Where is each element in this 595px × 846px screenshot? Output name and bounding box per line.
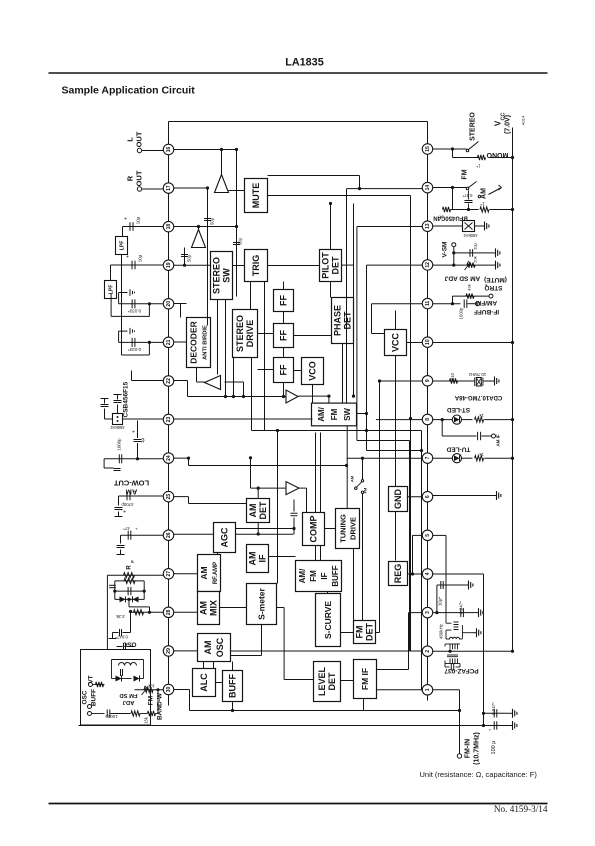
svg-text:0.033*: 0.033* — [128, 308, 141, 313]
svg-text:9: 9 — [425, 379, 431, 382]
svg-text:AM/: AM/ — [317, 406, 326, 421]
svg-text:STEREO: STEREO — [235, 315, 245, 352]
svg-text:AM: AM — [199, 566, 209, 579]
svg-text:SW: SW — [222, 268, 232, 283]
svg-text:OUT: OUT — [135, 170, 144, 186]
svg-text:AM: AM — [199, 601, 209, 615]
svg-text:STEREO: STEREO — [212, 257, 222, 294]
svg-text:CDA10.7MG-48A: CDA10.7MG-48A — [454, 394, 502, 400]
svg-text:Sample Application Circuit: Sample Application Circuit — [62, 85, 196, 97]
svg-text:OSC: OSC — [82, 690, 89, 704]
svg-text:S-CURVE: S-CURVE — [323, 601, 333, 639]
svg-text:(7.0V): (7.0V) — [505, 115, 512, 134]
svg-text:1000p: 1000p — [105, 714, 118, 719]
svg-text:910: 910 — [450, 372, 455, 380]
svg-text:OSC: OSC — [215, 637, 225, 657]
svg-text:24: 24 — [166, 455, 172, 461]
svg-text:+: + — [489, 728, 492, 733]
svg-text:+: + — [135, 527, 138, 532]
svg-text:10μ: 10μ — [473, 242, 478, 249]
svg-text:AM: AM — [248, 504, 258, 518]
svg-text:GND: GND — [393, 489, 403, 510]
svg-text:FM SD: FM SD — [119, 692, 137, 698]
svg-text:FM-IN: FM-IN — [465, 739, 472, 758]
svg-text:AM SD ADJ: AM SD ADJ — [444, 275, 480, 282]
svg-text:PCFAZ-037: PCFAZ-037 — [444, 667, 479, 674]
svg-text:DET: DET — [331, 256, 341, 275]
svg-text:VCO: VCO — [308, 361, 318, 381]
svg-text:LPF: LPF — [120, 241, 126, 251]
svg-text:V-SM: V-SM — [442, 242, 449, 258]
svg-text:1μ: 1μ — [140, 438, 145, 443]
svg-text:10.7MHz: 10.7MHz — [469, 372, 487, 377]
svg-text:15k: 15k — [144, 716, 149, 724]
svg-text:TUNING: TUNING — [339, 514, 348, 543]
svg-text:AM: AM — [203, 641, 213, 655]
svg-text:BFU450C4N: BFU450C4N — [433, 215, 467, 221]
svg-text:MUTE: MUTE — [251, 183, 261, 209]
svg-text:AM: AM — [350, 475, 355, 482]
svg-text:1: 1 — [425, 688, 431, 691]
svg-text:22: 22 — [166, 378, 172, 384]
svg-text:19: 19 — [166, 262, 172, 268]
svg-text:15: 15 — [425, 146, 431, 152]
svg-text:14: 14 — [425, 185, 431, 191]
svg-text:450kHz: 450kHz — [463, 233, 477, 238]
svg-text:0.047*: 0.047* — [115, 635, 128, 640]
svg-text:ALC: ALC — [199, 673, 209, 692]
svg-text:No. 4159-3/14: No. 4159-3/14 — [494, 804, 548, 814]
svg-text:1*: 1* — [480, 202, 484, 207]
svg-text:450kHz: 450kHz — [439, 624, 444, 639]
svg-text:PILOT: PILOT — [321, 252, 331, 279]
svg-text:27: 27 — [166, 571, 172, 577]
svg-text:DET: DET — [258, 501, 268, 520]
svg-text:0.047*: 0.047* — [491, 702, 496, 715]
svg-text:8: 8 — [425, 418, 431, 421]
svg-text:DRIVE: DRIVE — [245, 320, 255, 348]
svg-text:LA1835: LA1835 — [285, 57, 323, 69]
svg-text:50μ: 50μ — [187, 254, 192, 262]
svg-text:DET: DET — [327, 672, 337, 691]
svg-text:BUFF: BUFF — [91, 689, 98, 706]
svg-text:IF: IF — [258, 554, 268, 563]
svg-text:DET: DET — [365, 622, 375, 641]
svg-text:17: 17 — [166, 185, 172, 191]
svg-text:3: 3 — [425, 611, 431, 614]
svg-text:3.3k: 3.3k — [115, 614, 124, 619]
svg-text:LPF: LPF — [109, 285, 115, 295]
svg-text:29: 29 — [166, 648, 172, 654]
svg-text:0.033*: 0.033* — [128, 347, 141, 352]
svg-text:ANTI BIRDIE: ANTI BIRDIE — [203, 325, 209, 360]
svg-text:10μ: 10μ — [138, 254, 143, 262]
svg-text:BUFF: BUFF — [228, 674, 238, 698]
svg-text:26: 26 — [166, 532, 172, 538]
svg-text:MONO: MONO — [486, 151, 508, 158]
svg-text:SW: SW — [343, 408, 352, 421]
svg-text:RF.AMP: RF.AMP — [213, 562, 219, 584]
svg-text:10μ: 10μ — [136, 216, 141, 224]
svg-text:MIX: MIX — [209, 600, 219, 616]
svg-text:10μ*: 10μ* — [438, 597, 443, 606]
svg-text:IF: IF — [320, 572, 329, 579]
svg-text:456kHz: 456kHz — [110, 425, 124, 430]
svg-text:21: 21 — [166, 339, 172, 345]
svg-text:COMP: COMP — [309, 516, 319, 543]
svg-text:FF: FF — [279, 330, 289, 341]
svg-text:47*: 47* — [123, 526, 130, 531]
svg-text:DRIVE: DRIVE — [349, 517, 358, 540]
svg-text:AM: AM — [481, 188, 488, 199]
svg-text:F: F — [130, 560, 135, 563]
svg-text:7: 7 — [425, 456, 431, 459]
svg-text:10: 10 — [425, 339, 431, 345]
svg-text:AM IF: AM IF — [496, 434, 501, 446]
svg-text:13: 13 — [425, 223, 431, 229]
svg-text:1000p: 1000p — [117, 438, 122, 451]
svg-text:20: 20 — [166, 301, 172, 307]
svg-text:23: 23 — [166, 416, 172, 422]
svg-text:FM: FM — [462, 169, 469, 179]
svg-text:4700p: 4700p — [121, 502, 134, 507]
svg-text:ST-LED: ST-LED — [447, 406, 470, 413]
svg-text:100 μ: 100 μ — [491, 741, 497, 755]
svg-text:FM IF: FM IF — [360, 668, 370, 690]
svg-text:16: 16 — [166, 147, 172, 153]
svg-text:6: 6 — [425, 495, 431, 498]
svg-text:4: 4 — [425, 572, 431, 575]
svg-text:FM: FM — [363, 487, 368, 493]
svg-text:Unit (resistance: Ω, capacitan: Unit (resistance: Ω, capacitance: F) — [420, 770, 538, 779]
svg-text:TU-LED: TU-LED — [446, 446, 470, 453]
svg-text:BUFF: BUFF — [331, 565, 340, 586]
svg-text:+: + — [126, 255, 129, 261]
svg-text:11: 11 — [425, 301, 431, 307]
svg-text:AM/: AM/ — [298, 568, 307, 583]
svg-text:5: 5 — [425, 534, 431, 537]
svg-text:OUT: OUT — [135, 131, 144, 147]
svg-text:DET: DET — [343, 311, 353, 330]
svg-text:10k: 10k — [147, 684, 155, 689]
svg-text:12: 12 — [425, 262, 431, 268]
svg-text:FM: FM — [309, 570, 318, 582]
svg-text:DECODER: DECODER — [189, 321, 199, 364]
svg-text:R: R — [127, 565, 133, 570]
svg-text:+: + — [132, 430, 135, 436]
svg-text:A014: A014 — [521, 115, 526, 125]
svg-text:(MUTE): (MUTE) — [484, 276, 507, 283]
svg-text:FF: FF — [279, 295, 289, 306]
svg-text:30: 30 — [166, 686, 172, 692]
svg-text:1*: 1* — [476, 164, 480, 169]
svg-text:REG: REG — [393, 564, 403, 584]
svg-text:AM/FM: AM/FM — [476, 299, 497, 306]
svg-text:+: + — [123, 510, 126, 516]
svg-text:28: 28 — [166, 609, 172, 615]
svg-text:STEREO: STEREO — [470, 112, 477, 141]
svg-text:0.47*: 0.47* — [462, 193, 472, 198]
svg-text:L: L — [126, 137, 135, 142]
svg-text:18: 18 — [166, 224, 172, 230]
svg-text:S-meter: S-meter — [257, 587, 267, 619]
svg-text:FM: FM — [330, 408, 339, 420]
svg-text:50μ: 50μ — [238, 237, 243, 245]
svg-text:IF-BUFF: IF-BUFF — [474, 308, 499, 315]
svg-text:0.047*: 0.047* — [459, 601, 464, 614]
svg-text:AM: AM — [248, 552, 258, 566]
svg-text:STRQ: STRQ — [484, 284, 502, 291]
svg-text:TRIG: TRIG — [251, 255, 261, 277]
svg-text:(10.7MHz): (10.7MHz) — [474, 732, 481, 765]
svg-text:FM: FM — [355, 626, 365, 639]
svg-text:2: 2 — [425, 650, 431, 653]
svg-text:R: R — [126, 175, 135, 181]
svg-text:BAND-W: BAND-W — [157, 692, 164, 720]
svg-text:OSC: OSC — [122, 641, 136, 648]
svg-text:+: + — [124, 217, 127, 223]
svg-text:PHASE: PHASE — [333, 305, 343, 336]
svg-text:43k: 43k — [466, 284, 471, 290]
svg-text:25: 25 — [166, 494, 172, 500]
svg-text:CSB456F15: CSB456F15 — [123, 381, 130, 417]
svg-text:LOW-CUT: LOW-CUT — [113, 479, 149, 488]
svg-text:FF: FF — [279, 364, 289, 375]
svg-text:FM: FM — [148, 696, 155, 705]
svg-text:ADJ: ADJ — [123, 699, 135, 705]
svg-text:20k: 20k — [473, 256, 478, 262]
svg-text:1000p: 1000p — [459, 307, 464, 319]
svg-text:AGC: AGC — [220, 527, 230, 548]
svg-text:LEVEL: LEVEL — [317, 667, 327, 697]
svg-text:VCC: VCC — [391, 333, 401, 353]
